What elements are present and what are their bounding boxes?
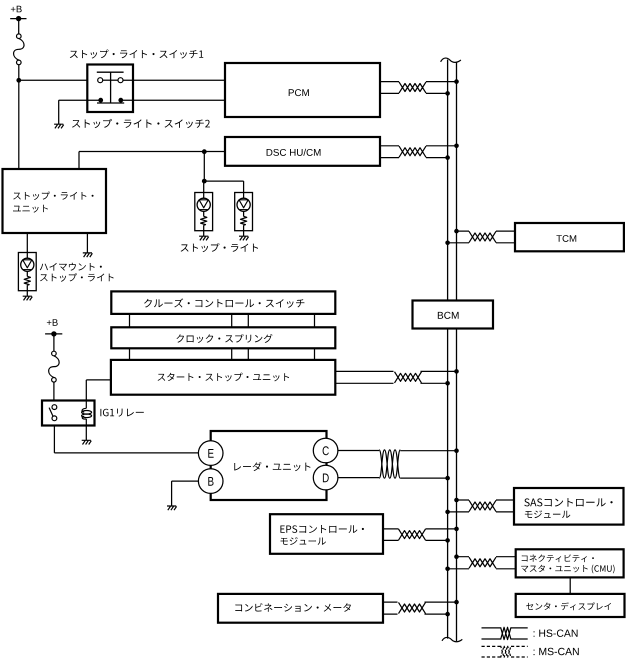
wire +B to fuse 1 (18, 19, 20, 34)
box PCM (225, 63, 380, 117)
node SAS CAN-L on bus (445, 510, 450, 515)
power +B label 1 (11, 6, 22, 12)
wire DSC CAN-L (380, 157, 448, 159)
wire cruise-clock connector 4 (314, 314, 316, 327)
node CMU CAN-H on bus (454, 554, 459, 559)
legend MS-CAN twist (501, 646, 511, 658)
wire EPS CAN-H (383, 528, 457, 530)
wire +B to fuse 2 (53, 334, 55, 351)
wire start-stop CAN-L (335, 382, 447, 384)
wire SW2 to ground (59, 99, 101, 101)
wire meter CAN-H (383, 601, 457, 603)
label stop light unit line 1 (13, 191, 93, 200)
legend HS-CAN sample wires (482, 627, 501, 629)
twisted pair start-stop unit (394, 367, 421, 388)
node stop light branch (202, 179, 207, 184)
bus break symbol bottom (442, 637, 462, 641)
label center display (526, 602, 611, 610)
wire unit to ground (86, 233, 88, 253)
power +B label 2 (47, 319, 58, 325)
wire relay to radar unit E (53, 426, 55, 453)
lamp stop light 1 (195, 193, 213, 231)
label HS-CAN (534, 630, 578, 637)
legend HS-CAN twist (501, 627, 511, 639)
box EPS control module (270, 514, 383, 554)
wire junction down to stop-light unit (18, 80, 20, 169)
wire clock-start connector 1 (129, 348, 131, 360)
wire PCM CAN-L (380, 92, 448, 94)
label DSC HU/CM (267, 149, 321, 156)
switch common bar (97, 71, 124, 73)
label EPS line 1 (280, 525, 364, 533)
wire SAS CAN-L (448, 511, 514, 513)
wire between SW1 contacts (103, 79, 118, 81)
wire PCM CAN-H (380, 81, 457, 83)
twisted pair radar C/D (379, 450, 400, 478)
node junction +B / stop-light switch (16, 78, 21, 83)
label SAS line 1 (524, 498, 612, 506)
wire cruise-clock connector 2 (231, 314, 233, 327)
wire cruise-clock connector 3 (247, 314, 249, 327)
box clock spring (111, 327, 335, 348)
node DSC CAN-L on bus (445, 155, 450, 160)
wire junction to switch contact (19, 79, 98, 81)
wire radar B to ground (172, 480, 199, 482)
wire clock-start connector 4 (314, 348, 316, 360)
label stop lights (181, 243, 258, 252)
twisted pair CMU (469, 553, 496, 574)
twisted pair SAS (469, 496, 496, 517)
wire to stop light 2 (204, 180, 243, 182)
wire radar D to bus (338, 477, 379, 479)
node DSC branch to stop lights (202, 149, 207, 154)
wire stop-light unit to DSC (78, 152, 80, 170)
ground for switch SW2 (54, 124, 64, 128)
relay contact top (52, 405, 57, 410)
radar pin E (198, 441, 223, 466)
wire clock-start connector 3 (247, 348, 249, 360)
label SAS line 2 (525, 510, 570, 518)
wire radar C to bus (338, 450, 379, 452)
wire fuse 1 to junction (18, 65, 20, 81)
label start-stop unit (158, 373, 290, 382)
switch SW2 bar (97, 102, 124, 104)
twisted pair TCM (469, 227, 496, 247)
wire HS-CAN bus line A (left vertical) (447, 60, 449, 639)
wire relay coil to ground (85, 426, 87, 441)
box SAS control module (514, 488, 624, 525)
node PCM CAN-L on bus (445, 91, 450, 96)
wire meter CAN-L (383, 613, 448, 615)
wire EPS CAN-L (383, 539, 448, 541)
label cruise control switch (144, 298, 304, 307)
legend MS-CAN sample wires (482, 645, 501, 647)
label MS-CAN (534, 648, 579, 655)
wire branch down to lamps (203, 152, 205, 181)
box stop light unit (3, 169, 107, 233)
node TCM CAN-L on bus (445, 241, 450, 246)
node radar D on bus (445, 476, 450, 481)
box center display (516, 594, 625, 617)
box start-stop unit (111, 360, 335, 395)
node start-stop CAN-H on bus (454, 369, 459, 374)
radar pin B (198, 469, 223, 494)
power tap bar 2 (45, 333, 62, 335)
box TCM (515, 223, 624, 251)
switch actuator line (110, 72, 112, 103)
switch box (stop light switch 1/2) (87, 65, 133, 113)
relay coil (85, 401, 87, 409)
wire HS-CAN bus line B (right vertical) (456, 62, 458, 642)
relay box IG1 (42, 401, 95, 426)
label combination meter (235, 603, 351, 612)
label EPS line 2 (280, 537, 325, 545)
box radar unit (211, 431, 327, 500)
wire fuse 2 to relay (53, 382, 55, 400)
node start-stop CAN-L on bus (445, 381, 450, 386)
twisted pair EPS (399, 524, 426, 545)
label IG1 relay (100, 409, 143, 417)
ground for IG1 relay coil (82, 440, 92, 444)
switch SW1 contact right (118, 78, 123, 83)
switch SW2 contact right (118, 98, 123, 103)
box DSC HU/CM (225, 137, 380, 166)
wire start-stop CAN-H (335, 370, 456, 372)
wire CMU CAN-H (457, 556, 516, 558)
fuse F1 (14, 39, 24, 61)
wire unit to high-mount lamp (26, 233, 28, 253)
ground for radar unit B (167, 506, 177, 510)
node meter CAN-H on bus (454, 600, 459, 605)
node radar C on bus (454, 448, 459, 453)
node meter CAN-L on bus (445, 612, 450, 617)
power tap bar 1 (10, 18, 26, 20)
label high-mount line 2 (40, 273, 114, 282)
wire cruise-clock connector 1 (129, 314, 131, 327)
label stop light switch 1 (70, 50, 203, 59)
switch SW2 contact left (98, 98, 103, 103)
label clock spring (176, 334, 272, 343)
twisted pair DSC (399, 141, 426, 162)
node EPS CAN-L on bus (445, 538, 450, 543)
wire TCM CAN-L (448, 242, 515, 244)
wire SW1 to PCM (123, 79, 225, 81)
ground for stop light unit (83, 253, 93, 257)
radar pin D (313, 465, 338, 490)
label stop light switch 2 (72, 119, 210, 128)
node PCM CAN-H on bus (454, 79, 459, 84)
box connectivity master unit (516, 549, 624, 577)
label PCM (289, 89, 309, 96)
node DSC CAN-H on bus (454, 144, 459, 149)
twisted pair combination meter (398, 598, 425, 619)
label BCM (438, 312, 459, 319)
label CMU line 2 (521, 565, 614, 574)
wire clock-start connector 2 (231, 348, 233, 360)
box BCM (413, 301, 494, 329)
node TCM CAN-H on bus (454, 229, 459, 234)
label CMU line 1 (522, 554, 594, 562)
bus break symbol top (441, 58, 461, 62)
wire CMU to center display (569, 577, 571, 594)
box combination meter (218, 594, 383, 623)
twisted pair PCM (399, 77, 426, 98)
label radar unit (234, 462, 310, 471)
radar pin C (313, 438, 338, 463)
label high-mount line 1 (40, 263, 102, 271)
node SAS CAN-H on bus (454, 498, 459, 503)
relay blade (49, 408, 53, 417)
wire DSC CAN-H (380, 145, 457, 147)
wire SW2 to PCM (121, 99, 225, 101)
node EPS CAN-H on bus (454, 527, 459, 532)
lamp high-mount stop light (18, 253, 36, 291)
switch SW1 contact left (98, 78, 103, 83)
wire SAS CAN-H (457, 499, 515, 501)
wire CMU CAN-L (448, 568, 516, 570)
fuse F2 (49, 356, 60, 378)
label stop light unit line 2 (13, 205, 48, 213)
wire TCM CAN-H (457, 230, 516, 232)
lamp stop light 2 (235, 193, 253, 231)
wire to stop light 1 (203, 181, 205, 192)
box cruise control switch (111, 291, 335, 314)
node CMU CAN-L on bus (445, 567, 450, 572)
label TCM (556, 235, 576, 242)
wire start-stop unit to IG1 relay (86, 379, 111, 381)
relay contact bottom (52, 416, 57, 421)
